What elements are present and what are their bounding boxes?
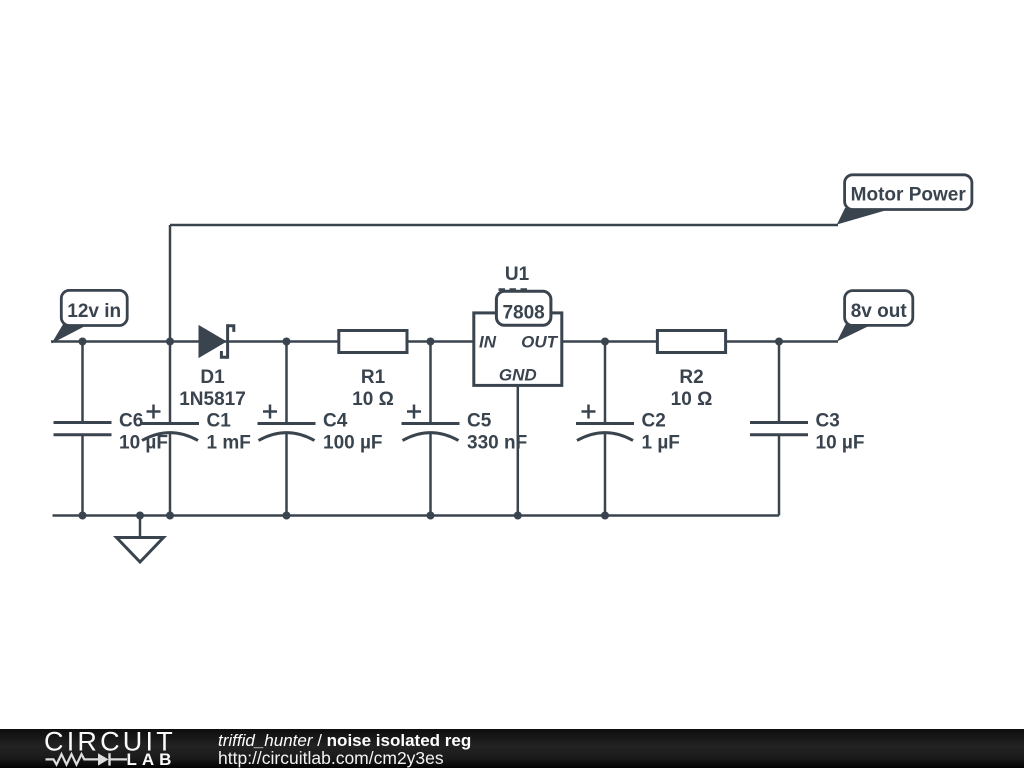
junction dot top rail C6 [79,338,87,346]
pin label OUT [521,333,559,352]
svg-text:7808: 7808 [502,303,544,324]
wire: top rail from 12v in to 8v out [51,340,838,343]
svg-text:330 nF: 330 nF [467,433,527,454]
svg-text:OUT: OUT [521,333,559,352]
pin label IN [479,333,497,352]
junction dot top rail C3 [775,338,783,346]
svg-text:C2: C2 [642,411,666,432]
value 100 uF [323,433,383,454]
junction dot top rail C2 [601,338,609,346]
svg-text:10 Ω: 10 Ω [671,389,713,410]
svg-text:LAB: LAB [127,750,177,768]
wire: C2 stems [604,342,607,516]
value 10 uF [816,433,865,454]
ground [117,516,164,563]
junction dot ground rail C2 [601,512,609,520]
node flag Motor Power [837,175,972,225]
svg-text:http://circuitlab.com/cm2y3es: http://circuitlab.com/cm2y3es [218,748,444,768]
label D1 [200,367,225,388]
svg-text:10 µF: 10 µF [119,433,168,454]
svg-text:C4: C4 [323,411,348,432]
junction dot ground rail C5 [427,512,435,520]
U1 7808 badge [496,291,551,325]
op-amp U1 regulator body [474,313,562,386]
label C4 [323,411,348,432]
capacitor C4 plates (polarized) [258,405,316,441]
svg-text:IN: IN [479,333,497,352]
svg-text:12v in: 12v in [67,301,121,322]
svg-text:triffid_hunter / noise isolate: triffid_hunter / noise isolated reg [218,731,471,750]
value 330 nF [467,433,527,454]
diode D1 [199,324,234,359]
node flag 8v out [837,291,913,342]
wire: C4 stems [285,342,288,516]
capacitor C2 plates (polarized) [576,405,634,441]
wire: C3 stems [778,342,781,516]
svg-text:1 mF: 1 mF [207,433,251,454]
svg-text:C6: C6 [119,411,143,432]
value 1 mF [207,433,251,454]
footer title line [218,731,471,750]
svg-text:100 µF: 100 µF [323,433,383,454]
svg-text:1N5817: 1N5817 [179,389,246,410]
junction dot ground rail ground symbol [136,512,144,520]
junction dot top rail riser/C1 [166,338,174,346]
label C6 [119,411,143,432]
svg-text:D1: D1 [200,367,225,388]
svg-text:1 µF: 1 µF [642,433,680,454]
svg-text:U1: U1 [505,264,530,285]
label R1 [361,367,386,388]
junction dot ground rail C4 [283,512,291,520]
node flag 12v in [52,290,128,343]
label C1 [207,411,232,432]
label U1 [505,264,530,285]
capacitor C1 plates (polarized) [141,405,199,441]
wire: motor power line [170,224,838,227]
svg-text:8v out: 8v out [851,301,908,322]
label C3 [816,411,840,432]
pin label GND [499,366,537,385]
junction dot ground rail C6 [79,512,87,520]
junction dot ground rail U1 GND [514,512,522,520]
value 1N5817 [179,389,246,410]
footer bar [0,729,1024,768]
wire: ground rail [53,514,780,517]
U1 hidden part-number remnant [499,288,532,291]
resistor R1 [339,331,407,353]
CircuitLab logo resistor-diode symbol [46,753,128,765]
junction dot top rail C5 [427,338,435,346]
capacitor C6 plates [54,423,112,435]
svg-text:C1: C1 [207,411,232,432]
CircuitLab logo LAB [127,750,177,768]
svg-text:R1: R1 [361,367,386,388]
value 10 ohm [352,389,394,410]
svg-text:C3: C3 [816,411,840,432]
resistor R2 [657,331,725,353]
wire: U1 GND pin stem [517,385,520,515]
svg-text:C5: C5 [467,411,492,432]
svg-text:R2: R2 [679,367,703,388]
junction dot top rail C4 [283,338,291,346]
wire: C5 stems [429,342,432,516]
capacitor C5 plates (polarized) [402,405,460,441]
wire: C1 stems [169,342,172,516]
svg-text:10 µF: 10 µF [816,433,865,454]
label C2 [642,411,666,432]
svg-text:Motor Power: Motor Power [851,185,967,206]
value 10 ohm [671,389,713,410]
footer url line [218,748,444,768]
wire: riser from top rail up to motor power line [169,225,172,342]
label C5 [467,411,492,432]
wire: C6 stems [81,342,84,516]
CircuitLab logo CIRCUIT [44,727,176,757]
value 10 uF [119,433,168,454]
junction dot ground rail C1 [166,512,174,520]
svg-text:10 Ω: 10 Ω [352,389,394,410]
capacitor C3 plates [750,423,808,435]
value 1 uF [642,433,680,454]
label R2 [679,367,703,388]
svg-text:GND: GND [499,366,537,385]
